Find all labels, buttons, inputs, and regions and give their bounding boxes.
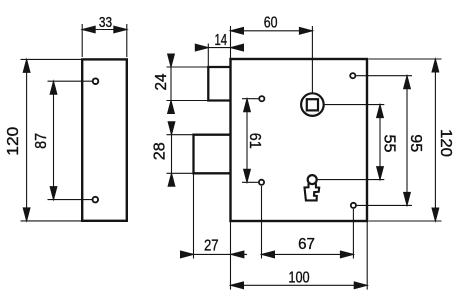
left view top screw hole (93, 78, 99, 84)
dim 95 arrows (404, 76, 411, 89)
dim 33 arrows (82, 26, 95, 33)
dim 14 extension line (207, 44, 209, 67)
dim 28 arrows outside (168, 122, 175, 135)
dim 100 arrows (231, 282, 244, 289)
dim 61 arrows (244, 99, 251, 112)
body top-left hole (259, 96, 264, 101)
svg-text:28: 28 (151, 142, 168, 160)
dim 55 extension lines (317, 105, 384, 180)
dim 87 line (53, 81, 55, 199)
lock body outline (231, 59, 368, 221)
dim 55 arrows (377, 105, 384, 118)
dim 60 line (231, 30, 313, 32)
svg-text:95: 95 (407, 134, 424, 152)
dim 28 extension lines (167, 135, 195, 174)
dim 61 extension lines (242, 99, 258, 183)
keyhole stem (305, 183, 320, 200)
dim 24 extension lines (167, 67, 210, 101)
top stub outline (208, 67, 230, 101)
svg-text:55: 55 (380, 135, 397, 153)
dim 120 left extension lines (21, 59, 83, 221)
spindle hub circle (301, 93, 324, 116)
dim 61 line (246, 99, 248, 183)
dim 87 arrows (50, 81, 57, 94)
dim 27 arrows outside (181, 251, 194, 258)
lower stub outline (194, 135, 231, 174)
dim 60 arrows (231, 27, 244, 34)
dim 27 line (180, 253, 247, 255)
dim 67 line (262, 253, 354, 255)
svg-text:87: 87 (33, 133, 50, 149)
dim 120 right arrows (432, 59, 439, 72)
svg-text:33: 33 (99, 14, 112, 31)
dim 60 extension lines (231, 26, 313, 93)
dim 33 line (82, 29, 127, 31)
dim 95 extension lines (356, 76, 412, 206)
dim 67 extension lines (262, 186, 354, 259)
svg-text:27: 27 (204, 237, 219, 254)
dim 100 line (231, 284, 368, 286)
svg-text:24: 24 (153, 73, 170, 90)
dim 100 extension line right (366, 221, 368, 290)
svg-text:120: 120 (437, 129, 454, 157)
dim 120 right line (434, 59, 436, 221)
dim 27 extension lines (194, 173, 231, 289)
dim 120 left line (26, 59, 28, 221)
dim 33 extension lines (82, 24, 127, 57)
dim 55 line (379, 105, 381, 180)
left view bottom screw hole (93, 197, 99, 203)
svg-text:14: 14 (215, 32, 228, 49)
body bottom-left hole (259, 180, 264, 185)
dim 14 arrows outside (195, 44, 208, 51)
svg-text:67: 67 (298, 236, 315, 253)
dim 67 arrows (262, 251, 275, 258)
dim 95 line (406, 76, 408, 206)
svg-text:120: 120 (5, 126, 22, 155)
dim 120 left arrows (23, 59, 30, 72)
keyhole circle (308, 175, 317, 184)
dim 24 line (170, 56, 172, 112)
svg-text:100: 100 (288, 270, 310, 287)
dim 120 right extension lines (369, 59, 442, 221)
dim 28 line (171, 123, 173, 185)
body top-right hole (350, 73, 355, 78)
svg-text:60: 60 (264, 14, 278, 31)
left view plate outline (82, 59, 127, 220)
dim 24 arrows outside (168, 54, 175, 67)
dim 87 extension lines (48, 81, 93, 199)
svg-text:61: 61 (246, 133, 263, 149)
dim 14 line (208, 47, 230, 49)
spindle square hole (307, 99, 318, 110)
body bottom-right hole (351, 203, 356, 208)
